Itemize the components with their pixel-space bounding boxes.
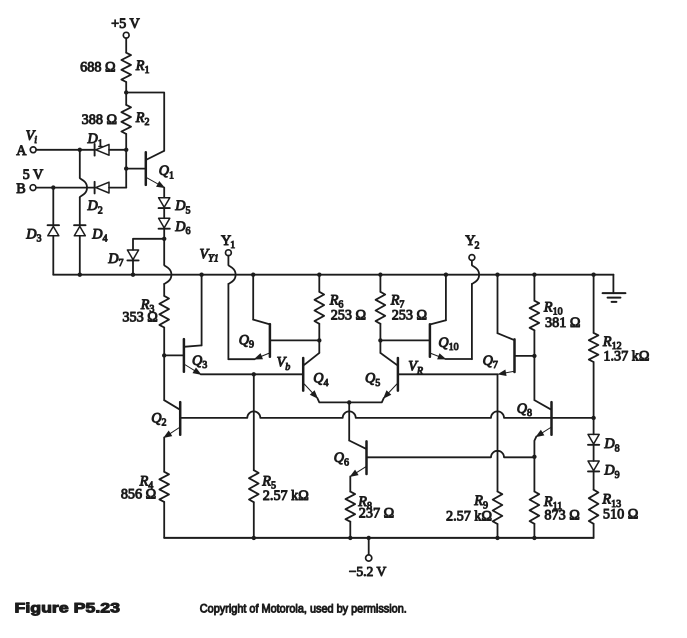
svg-text:856 Ω: 856 Ω (121, 486, 156, 502)
node Q10 collector on bus (444, 273, 448, 277)
wire D8 to D9 (593, 445, 595, 461)
transistor Q4 (303, 353, 328, 398)
resistor R8 237 ohm (346, 492, 395, 522)
wire Q9 collector to ground bus (252, 275, 254, 320)
wire R10 bottom to node (533, 330, 535, 356)
wire Y1 down with hop over ground bus (228, 256, 235, 360)
resistor R12 1.37 kohm (589, 333, 650, 364)
transistor Q9 (239, 320, 270, 359)
wire D9 to R13 (593, 472, 595, 490)
resistor R11 873 ohm (530, 492, 580, 524)
diode D8 (588, 434, 620, 454)
node Q7 collector on bus (495, 273, 499, 277)
caption Figure P5.23 (15, 601, 121, 616)
svg-text:+5 V: +5 V (111, 16, 140, 32)
node R10 / Q7 base / Q8 collector (532, 354, 536, 358)
transistor Q7 (483, 333, 515, 374)
wire Q10 base to R7 node (380, 339, 430, 341)
wire R7 bottom to node (379, 324, 381, 341)
node Q1 base junction (124, 166, 128, 170)
transistor Q3 (184, 339, 207, 374)
wire R12 top (593, 275, 595, 333)
svg-text:5 V: 5 V (23, 167, 44, 183)
label VR (408, 359, 423, 377)
svg-text:353 Ω: 353 Ω (122, 310, 157, 326)
wire R3 to Q3 base node (163, 328, 165, 356)
node D7 on ground bus (131, 273, 135, 277)
wire Q6 base line with hop (367, 451, 535, 458)
svg-text:388 Ω: 388 Ω (82, 112, 117, 128)
terminal input A with labels Vi and A (16, 128, 37, 159)
wire input A to D1 (36, 149, 94, 151)
terminal input B with labels 5V and B (16, 167, 44, 197)
wire Q2 collector to R3 node (163, 355, 165, 400)
node R11 on bottom bus (532, 536, 536, 540)
wire D7 to ground bus (132, 261, 134, 275)
node Vb / R5 branch (252, 372, 256, 376)
node R8 on bottom bus (348, 536, 352, 540)
wire Q6 emitter to R8 (349, 476, 351, 491)
diode D5 (159, 198, 191, 217)
wire Vb: Q3 emitter to Q4 base (201, 373, 304, 375)
wire Q5 emitter to common node (349, 398, 384, 402)
svg-text:Copyright of Motorola, used by: Copyright of Motorola, used by permissio… (200, 602, 407, 616)
node R7 / Q5 collector / Q10 base (378, 338, 382, 342)
node D4 on ground bus (78, 273, 82, 277)
wire D5 to D6 (163, 209, 165, 219)
wire R12 node to D8 (593, 418, 595, 435)
node A-wire / D4 column junction (78, 148, 82, 152)
wire D4 column with hop over B wire (80, 150, 87, 225)
diode D7 (107, 250, 138, 269)
wire Q9 base to R6 node (270, 339, 319, 341)
svg-text:381 Ω: 381 Ω (545, 315, 580, 331)
wire VR node to R9 (497, 374, 499, 491)
wire D1 to base node (109, 149, 126, 151)
diode D3 (25, 225, 59, 245)
node R9 on bottom bus (495, 536, 499, 540)
ground symbol (603, 275, 626, 302)
diode D2 (87, 182, 110, 217)
wire Q7 collector to ground bus (497, 275, 499, 334)
node R12 / Q8 base / D8 (591, 416, 595, 420)
node Q8 emitter / Q6 base / R11 (532, 455, 536, 459)
wire Q3 base (164, 354, 184, 356)
wire Q1 base (126, 168, 146, 170)
wire R5 to bottom bus (253, 502, 255, 538)
wire R5 column (253, 374, 255, 470)
svg-text:2.57 kΩ: 2.57 kΩ (263, 488, 309, 504)
wire D4 to ground bus (79, 236, 81, 275)
svg-text:253 Ω: 253 Ω (392, 307, 427, 323)
svg-text:2: 2 (475, 240, 480, 251)
node R3 / Q2 collector / Q3 base (162, 353, 166, 357)
wire R13 to bottom bus corner (593, 524, 595, 538)
wire ground bus (53, 274, 613, 276)
svg-text:B: B (16, 181, 25, 197)
terminal +5V supply with label (111, 16, 140, 53)
svg-text:253 Ω: 253 Ω (331, 307, 366, 323)
wire Q2 emitter to R4 (163, 437, 165, 471)
wire R12 bottom to node (593, 362, 595, 418)
wire Q8 emitter to node (534, 437, 536, 457)
wire input B to D2 (36, 187, 95, 189)
wire Q4 collector to R6 node (318, 340, 320, 353)
wire Q7 base to R10 node (515, 355, 535, 357)
transistor Q8 (517, 400, 552, 437)
terminal Y1 output with labels (200, 233, 236, 265)
wire Q2-Q8 base line with hops (180, 411, 593, 417)
wire node to R11 (533, 457, 535, 492)
wire -5.2V bottom bus (164, 537, 593, 539)
wire Y2 down with hop over ground bus (472, 260, 479, 359)
node diff-pair common emitter (347, 400, 351, 404)
wire R11 to bottom bus (533, 524, 535, 538)
wire Y1 to Q9 emitter (228, 358, 254, 360)
wire R8 to bottom bus (349, 522, 351, 538)
wire Q10 emitter to Y2 (445, 358, 472, 360)
resistor R2 388 ohm (82, 105, 150, 134)
node B-wire / D3 column junction (51, 185, 55, 189)
diode D9 (588, 461, 620, 481)
svg-text:−5.2 V: −5.2 V (349, 564, 387, 579)
wire Q4 emitter to common node (317, 398, 349, 402)
wire R10 top (533, 275, 535, 301)
resistor R3 353 ohm (122, 296, 169, 328)
wire Q1 emitter to D5 (163, 188, 165, 198)
wire diff-pair emitters to Q6 collector (348, 402, 350, 440)
diode D4 (74, 225, 107, 245)
node -5.2V tap on bottom bus (367, 536, 371, 540)
svg-text:510 Ω: 510 Ω (603, 506, 638, 522)
node R7 on ground bus (378, 273, 382, 277)
wire R10 node to Q8 collector (533, 356, 535, 400)
wire R4 to bottom bus corner (163, 502, 165, 538)
node D1 junction (124, 148, 128, 152)
wire D6 node to R3 with hop over ground bus (164, 239, 171, 296)
wire Q5 collector to R7 node (379, 340, 381, 353)
terminal -5.2V supply with label (349, 538, 387, 579)
transistor Q1 (146, 151, 174, 188)
transistor Q6 (334, 441, 367, 477)
wire base column (125, 150, 127, 188)
resistor R10 381 ohm (530, 299, 581, 330)
node Q9 collector on bus (251, 273, 255, 277)
svg-text:A: A (16, 143, 27, 159)
wire R6 top (318, 275, 320, 292)
resistor R6 253 ohm (315, 292, 367, 324)
svg-text:1.37 kΩ: 1.37 kΩ (603, 348, 649, 364)
node R10 on ground bus (532, 273, 536, 277)
wire D6 to node (163, 229, 165, 239)
terminal Y2 output with label (465, 233, 479, 260)
svg-text:1: 1 (230, 240, 235, 251)
wire Q3 collector to ground bus (201, 275, 203, 346)
resistor R1 688 ohm (80, 53, 149, 82)
wire VR: Q5 base to Q7 emitter (398, 373, 498, 375)
wire R9 to bottom bus (497, 524, 499, 538)
node R6 on ground bus (317, 273, 321, 277)
wire R2 to diode node (125, 134, 127, 150)
resistor R9 2.57 kohm (446, 492, 502, 525)
svg-text:237 Ω: 237 Ω (359, 506, 394, 522)
node R6 / Q4 collector / Q9 base (317, 338, 321, 342)
node R1-R2 junction (124, 82, 128, 105)
resistor R7 253 ohm (376, 292, 427, 324)
wire D3 column (52, 188, 54, 226)
node D6 / D7 branch (162, 237, 166, 241)
node R5 on bottom bus (252, 536, 256, 540)
label Vb (277, 355, 291, 373)
diode D6 (159, 218, 191, 237)
transistor Q5 (365, 353, 398, 398)
caption copyright (200, 602, 407, 616)
wire R6 bottom to node (318, 324, 320, 341)
svg-text:Figure P5.23: Figure P5.23 (15, 601, 121, 616)
transistor Q2 (151, 400, 180, 437)
svg-text:873 Ω: 873 Ω (544, 508, 579, 524)
node R12 on ground bus (591, 273, 595, 277)
wire R1/R2 junction to Q1 collector (126, 93, 164, 151)
resistor R5 2.57 kohm (249, 470, 309, 504)
svg-text:2.57 kΩ: 2.57 kΩ (446, 508, 492, 524)
wire D2 to base column (109, 187, 126, 189)
wire D3 to bus corner (52, 236, 54, 275)
svg-text:688 Ω: 688 Ω (80, 60, 115, 76)
diode D1 (87, 131, 110, 155)
resistor R13 510 ohm (589, 490, 638, 524)
node Q3 collector on bus (199, 273, 203, 277)
transistor Q10 (430, 320, 459, 359)
wire Q10 collector to ground bus (445, 275, 447, 321)
resistor R4 856 ohm (121, 472, 169, 503)
wire R7 top (379, 275, 381, 292)
wire branch to D7 (133, 239, 164, 250)
